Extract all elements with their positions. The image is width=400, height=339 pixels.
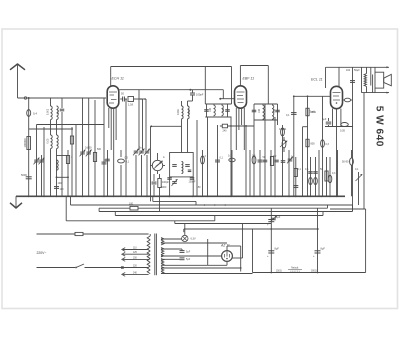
mains switch S1 xyxy=(76,264,84,268)
wire B+ left xyxy=(270,208,272,272)
trimmer below box xyxy=(172,181,177,183)
T1 secondary 1 xyxy=(161,238,164,241)
variable tap comp xyxy=(271,216,277,222)
T1 secondary 2 xyxy=(161,248,164,250)
svg-text:240: 240 xyxy=(223,130,228,133)
wire antenna to V1 grid xyxy=(18,97,107,99)
tube V2 EBF11 xyxy=(235,86,247,108)
mains wire top xyxy=(37,233,149,235)
wire v2175 xyxy=(217,125,219,196)
wire v3155 xyxy=(315,157,317,196)
wire gang1 xyxy=(82,98,84,196)
oscillator coil upper a xyxy=(182,106,184,119)
wire v275 xyxy=(274,117,276,196)
wire B+ mid dots xyxy=(270,228,272,230)
wire sec3 xyxy=(161,248,180,250)
svg-text:8μF: 8μF xyxy=(321,248,326,251)
svg-text:2x500: 2x500 xyxy=(85,147,92,150)
wire sec top xyxy=(161,238,182,240)
oscillator switch xyxy=(152,160,162,170)
loudspeaker LS xyxy=(375,72,384,88)
wire v231 down xyxy=(230,117,232,196)
IF transformer T-IF1 capR xyxy=(227,104,229,117)
IF transformer T-IF1 capL xyxy=(206,104,208,117)
trimmer box 1.5 xyxy=(128,97,134,102)
capacitor elyt 16uF xyxy=(268,219,274,221)
variable capacitor gang2 xyxy=(86,151,91,153)
wire IF1 bot xyxy=(205,116,231,118)
svg-text:220V~: 220V~ xyxy=(37,251,47,255)
svg-text:50-90: 50-90 xyxy=(342,161,349,164)
wire V4 out xyxy=(240,246,242,272)
wire v142 xyxy=(142,99,144,150)
tube V1 ECH11 xyxy=(107,86,119,108)
wire v3525 xyxy=(352,67,354,211)
wire v295b xyxy=(295,157,297,196)
component 260 xyxy=(258,159,263,161)
wire v3375 xyxy=(337,150,339,196)
resistor 800 xyxy=(306,139,309,147)
wire v2715 xyxy=(270,150,272,196)
wire sec5 xyxy=(161,258,180,260)
wire v95 xyxy=(94,100,96,196)
oscillator coil box xyxy=(170,153,194,177)
svg-text:50μF: 50μF xyxy=(354,69,360,72)
wire EBF grid return xyxy=(220,125,254,127)
T1 secondary 3 xyxy=(161,259,164,261)
oval 322 xyxy=(321,140,325,148)
svg-text:150: 150 xyxy=(57,109,60,114)
wire v3275 xyxy=(327,205,329,208)
wire speaker lead down xyxy=(363,93,365,209)
capacitor c310 xyxy=(308,171,313,173)
resistor v95 xyxy=(93,153,96,162)
wire v246 xyxy=(245,125,247,196)
resistor R 100000 xyxy=(27,137,31,150)
wire gang2 xyxy=(88,98,90,196)
wire IF2 top xyxy=(254,103,278,105)
capacitor ant trim xyxy=(60,108,65,110)
coil 0.05 V3 xyxy=(341,123,349,127)
svg-text:0,05: 0,05 xyxy=(46,138,49,143)
resistor v250 xyxy=(252,156,256,164)
rail y201 xyxy=(153,200,196,202)
rail y229 xyxy=(184,228,319,230)
svg-text:5 W 640: 5 W 640 xyxy=(374,106,385,147)
resistor 1M xyxy=(306,108,309,116)
wire v139 xyxy=(138,90,140,150)
wire sec4 xyxy=(161,255,222,257)
wire V1 pin1 xyxy=(108,108,110,128)
IF1 coil a xyxy=(214,105,216,116)
svg-text:Netzdr.: Netzdr. xyxy=(291,267,299,270)
svg-text:1,5δ: 1,5δ xyxy=(128,103,134,107)
component 271 xyxy=(270,157,273,166)
wire osc feed h xyxy=(151,125,182,127)
wire V2 pin2 xyxy=(238,108,240,130)
power transformer T1 primary xyxy=(147,236,150,240)
svg-text:16μF: 16μF xyxy=(275,216,281,219)
wire v3525b xyxy=(352,205,354,212)
wire h127 xyxy=(29,128,73,130)
wire sec2 xyxy=(161,242,227,244)
wire IF1 top xyxy=(205,103,231,105)
wire v3225 xyxy=(322,96,324,196)
resistor left small xyxy=(71,127,73,196)
wire osc left xyxy=(150,126,152,201)
svg-text:100: 100 xyxy=(129,203,134,206)
pot vol bottom xyxy=(282,140,286,148)
oscillator coil upper b xyxy=(188,106,190,119)
rail y223 xyxy=(175,223,271,225)
antenna xyxy=(17,65,19,98)
capacitor C 5000 xyxy=(26,176,32,178)
capacitor in-box left xyxy=(172,164,177,166)
svg-text:0,5MΩ: 0,5MΩ xyxy=(279,128,286,131)
capacitor 0.1 c293 xyxy=(291,112,297,114)
capacitor v107 xyxy=(105,158,110,160)
IF transformer T-IF2 capR xyxy=(277,104,279,120)
svg-text:100: 100 xyxy=(346,69,351,72)
tube V3 ECL11 xyxy=(331,86,343,108)
rail y211 xyxy=(99,211,352,213)
rail y208 xyxy=(99,207,327,209)
trimmer 289 xyxy=(288,158,293,160)
svg-text:0,001: 0,001 xyxy=(46,108,49,115)
variable capacitor gang1 xyxy=(80,151,85,153)
svg-text:5000: 5000 xyxy=(21,173,27,177)
wire v135 xyxy=(135,155,137,196)
svg-text:100: 100 xyxy=(258,108,261,113)
coil L5 xyxy=(57,160,59,170)
wire af line xyxy=(294,95,331,97)
capacitor c217 xyxy=(215,159,220,161)
speaker capacitor xyxy=(370,75,372,86)
resistor 330 xyxy=(328,175,332,183)
resistor r202 xyxy=(202,150,204,196)
padder capacitor 240 xyxy=(222,124,227,128)
wire h124 xyxy=(37,124,105,126)
svg-text:100pF: 100pF xyxy=(196,93,204,97)
wire V2 pin1 xyxy=(235,108,237,150)
oscillator coil a xyxy=(182,162,184,174)
bottom rail xyxy=(253,272,366,274)
dial lamp xyxy=(182,235,188,241)
ground xyxy=(15,196,17,207)
wire v254 down xyxy=(253,120,255,196)
svg-text:EBF 11: EBF 11 xyxy=(243,77,255,81)
wire v126 xyxy=(125,99,127,196)
wire v146 xyxy=(145,99,147,150)
T1 secondary 4 xyxy=(161,267,164,269)
wire sec7 xyxy=(161,267,241,269)
ground bus xyxy=(16,195,345,197)
IF2 coil b xyxy=(272,105,274,119)
wire v76 xyxy=(75,125,77,197)
svg-text:ECH 11: ECH 11 xyxy=(112,77,124,81)
wire V2 pin4 xyxy=(243,108,245,150)
capacitor 50 after V1 xyxy=(120,98,122,100)
wire v104 xyxy=(103,98,105,196)
wire v36 xyxy=(36,125,38,197)
wire v147 xyxy=(146,155,148,196)
mains wire bottom xyxy=(37,267,76,269)
wire sec8 xyxy=(161,273,253,275)
capacitor 100pF osc coupling xyxy=(119,89,223,91)
wire V1 pin4 xyxy=(115,108,117,140)
wire v2825 xyxy=(282,125,284,196)
svg-text:5μF: 5μF xyxy=(186,251,191,254)
ballast resistor xyxy=(130,206,138,210)
capacitor ant series xyxy=(27,110,31,117)
wire rectifier B+ riser xyxy=(242,224,244,259)
wire V1 pin2 xyxy=(110,108,112,150)
transformer core xyxy=(154,234,156,276)
capacitor elyt 8uF a xyxy=(268,250,274,252)
wire avc v197 xyxy=(196,120,198,196)
capacitor c265 xyxy=(263,159,268,161)
rail y205 xyxy=(71,204,353,206)
wire V3 plate feed xyxy=(338,67,340,86)
svg-text:100000: 100000 xyxy=(23,138,27,147)
svg-text:300Ω: 300Ω xyxy=(311,271,317,273)
wire V3 pin1 xyxy=(332,109,334,126)
oval c232 xyxy=(231,150,233,196)
coil L4 xyxy=(57,135,59,149)
capacitor elyt 8uF b xyxy=(315,250,321,252)
trimmer row mid xyxy=(134,150,139,152)
svg-text:0,05: 0,05 xyxy=(340,130,345,133)
wire sec6 xyxy=(161,264,208,266)
wire v310 xyxy=(310,157,312,196)
IF1 coil b xyxy=(222,105,224,116)
wire V2 top feed h xyxy=(240,65,268,67)
resistor osc grid xyxy=(159,174,161,178)
wire v265 xyxy=(264,104,266,196)
capacitor osc left 100pF xyxy=(169,177,171,196)
wire speaker bottom rail xyxy=(362,92,390,94)
wire v1415 xyxy=(141,155,143,196)
svg-text:ECL 11: ECL 11 xyxy=(311,78,323,82)
wire v44 xyxy=(43,127,45,196)
wire V2 top feed v xyxy=(239,66,241,87)
wire loop A right xyxy=(231,67,233,105)
IF transformer T-IF2 capL xyxy=(253,104,255,120)
rail y220 xyxy=(66,220,215,222)
wire V2 pin3 xyxy=(241,108,243,125)
svg-text:100pF: 100pF xyxy=(162,181,169,184)
svg-text:6,3V: 6,3V xyxy=(191,238,196,241)
capacitor grid V3 xyxy=(344,98,350,102)
svg-text:5μF: 5μF xyxy=(322,118,327,121)
wire sec riser xyxy=(207,239,209,265)
svg-text:500: 500 xyxy=(97,148,102,151)
wire coil stubs xyxy=(57,155,69,157)
wire top rail left xyxy=(111,66,232,68)
svg-text:150: 150 xyxy=(197,186,202,189)
wire v62 xyxy=(61,125,63,197)
wire V4 top xyxy=(226,246,228,251)
voltage taps xyxy=(123,249,149,251)
IF2 coil a xyxy=(263,105,265,119)
rectifier V4 AZ11 xyxy=(222,251,233,262)
svg-text:100pF: 100pF xyxy=(189,181,196,184)
resistor 326 xyxy=(325,171,328,181)
resistor v68 xyxy=(67,150,69,196)
wire v330 xyxy=(329,157,331,196)
wire ant coupling xyxy=(28,98,30,196)
wire v319 xyxy=(318,150,320,196)
coil L3 xyxy=(51,135,53,149)
trimmer pair xyxy=(34,159,39,161)
wire v289 xyxy=(288,150,290,196)
wire V3 pin3 xyxy=(340,109,342,127)
wire v2938 xyxy=(293,96,295,196)
wire h1255 xyxy=(325,126,353,128)
wire V3 grid feed xyxy=(325,67,327,88)
svg-text:3mA: 3mA xyxy=(310,110,316,114)
wire speaker left link xyxy=(361,67,363,92)
wire v3265 xyxy=(326,157,328,196)
wire v260 xyxy=(259,150,261,196)
svg-text:800: 800 xyxy=(311,143,316,146)
svg-text:4 1 6 2 5 3: 4 1 6 2 5 3 xyxy=(290,271,300,273)
wire v3075 xyxy=(307,96,309,196)
rail y215 xyxy=(115,215,323,217)
wire v250 xyxy=(249,150,251,196)
svg-text:0,05: 0,05 xyxy=(188,109,191,114)
svg-text:0,4: 0,4 xyxy=(33,112,37,116)
wire V4 bottom xyxy=(226,261,228,265)
capacitor osc right 100pF xyxy=(192,177,194,196)
oval below V1 xyxy=(118,159,125,163)
svg-text:150Ω: 150Ω xyxy=(276,271,282,273)
speaker field coil xyxy=(364,74,366,87)
svg-text:0,1: 0,1 xyxy=(286,114,290,117)
svg-text:0,001: 0,001 xyxy=(177,108,180,115)
wire V1 pin3 xyxy=(113,108,115,196)
wire B+ right xyxy=(317,208,319,272)
wire link down xyxy=(222,90,224,99)
capacitor v104 xyxy=(102,161,107,163)
antenna coil L2 xyxy=(57,106,59,120)
resistor 295 xyxy=(294,169,297,177)
wire V1 plate feed xyxy=(110,67,112,87)
wire loop B right xyxy=(267,66,269,105)
wire to V2 grid xyxy=(220,98,234,100)
wire ECL top rail xyxy=(326,66,390,68)
capacitor 5uF V3 xyxy=(326,121,332,123)
svg-text:8μF: 8μF xyxy=(275,248,280,251)
svg-text:AZ 11: AZ 11 xyxy=(220,244,230,248)
wire v107 xyxy=(107,150,109,196)
capacitor in-box right xyxy=(185,164,190,166)
svg-text:5000: 5000 xyxy=(161,186,167,189)
svg-text:100: 100 xyxy=(60,188,65,191)
pot vol top xyxy=(281,128,285,136)
svg-text:100: 100 xyxy=(222,107,225,112)
wire loop A left xyxy=(204,67,206,105)
svg-text:100: 100 xyxy=(58,182,63,185)
antenna coil L1 xyxy=(51,106,53,120)
wire IF2 bot xyxy=(254,119,278,121)
capacitor elyt a xyxy=(180,250,185,252)
svg-text:100: 100 xyxy=(209,107,212,112)
fuse F1 xyxy=(75,232,83,235)
output trans arrow xyxy=(358,172,360,205)
wire v3025 xyxy=(302,127,304,197)
capacitor c315 xyxy=(313,171,318,173)
capacitor 295 xyxy=(293,185,298,187)
wire V3 pin2 xyxy=(336,109,338,197)
wire v207 down xyxy=(207,117,209,196)
svg-text:5μF: 5μF xyxy=(186,258,191,261)
wire right rail xyxy=(365,209,367,273)
wire v2775 xyxy=(277,120,279,125)
